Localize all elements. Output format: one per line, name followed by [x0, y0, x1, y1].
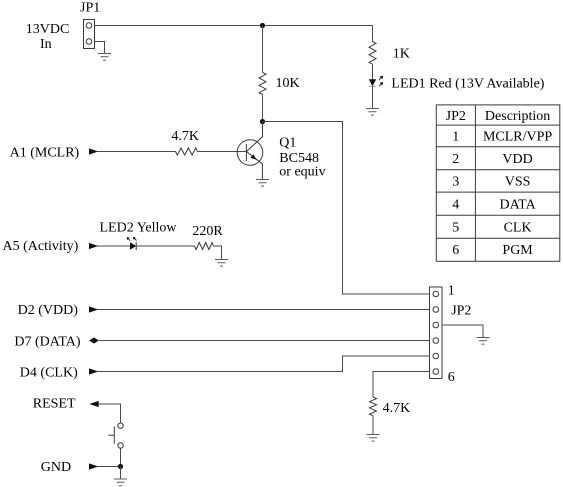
ground JP2 pin3	[477, 338, 490, 345]
ground 220R	[215, 260, 228, 267]
svg-text:JP2: JP2	[451, 304, 471, 319]
ground LED1	[366, 109, 379, 116]
svg-text:10K: 10K	[276, 76, 300, 91]
wire RESET to switch	[99, 404, 121, 423]
svg-text:4.7K: 4.7K	[383, 401, 411, 416]
wire junction down to 10K	[262, 26, 264, 73]
resistor 4.7K pulldown	[370, 397, 377, 416]
svg-text:CLK: CLK	[504, 220, 532, 235]
svg-text:1: 1	[448, 284, 455, 299]
node collector junction	[260, 119, 265, 124]
wire junction to ground	[120, 467, 122, 480]
svg-text:13VDC: 13VDC	[26, 22, 70, 37]
wire 4.7K to base	[198, 151, 247, 153]
svg-text:GND: GND	[41, 460, 71, 475]
svg-text:4: 4	[452, 197, 459, 212]
wire 10K to collector node	[262, 95, 264, 122]
svg-text:MCLR/VPP: MCLR/VPP	[483, 130, 552, 145]
wire switch to GND rail	[120, 448, 122, 466]
wire 1K to LED1	[372, 64, 374, 79]
LED LED2	[127, 237, 137, 250]
wire collector node to JP2 pin1	[263, 122, 430, 295]
ground Q1 emitter	[256, 180, 269, 187]
svg-text:LED2 Yellow: LED2 Yellow	[100, 220, 178, 235]
resistor 10K	[259, 73, 266, 95]
connector JP2	[430, 287, 443, 379]
svg-text:220R: 220R	[192, 224, 223, 239]
node GND junction	[118, 464, 123, 469]
wire top rail corner down to 1K	[372, 26, 374, 42]
svg-text:A1 (MCLR): A1 (MCLR)	[10, 145, 80, 160]
svg-text:VDD: VDD	[502, 152, 532, 167]
resistor 1K	[369, 42, 376, 65]
svg-text:In: In	[40, 37, 52, 52]
wire 4.7K to ground	[372, 416, 374, 435]
connector JP1	[84, 20, 95, 49]
svg-text:D4 (CLK): D4 (CLK)	[20, 365, 78, 380]
svg-text:Q1: Q1	[279, 135, 296, 150]
arrow GND	[89, 463, 98, 469]
wire LED2 to 220R	[136, 245, 194, 247]
wire JP2 pin6 to 4.7K	[373, 372, 430, 398]
svg-text:2: 2	[452, 152, 459, 167]
svg-text:4.7K: 4.7K	[171, 129, 199, 144]
svg-text:A5 (Activity): A5 (Activity)	[3, 239, 79, 254]
svg-text:D2 (VDD): D2 (VDD)	[18, 303, 79, 318]
wire GND to junction	[97, 466, 121, 468]
arrow A5	[89, 243, 98, 249]
arrow D4	[89, 368, 98, 374]
node junction top rail / 10K	[260, 23, 265, 28]
wire JP2 pin3 to ground	[442, 325, 483, 338]
svg-text:3: 3	[452, 175, 459, 190]
wire JP1 pin2 to ground	[95, 42, 105, 54]
arrow D2	[89, 306, 98, 312]
resistor 4.7K base	[176, 148, 198, 155]
svg-text:Description: Description	[485, 109, 550, 124]
arrow RESET	[89, 401, 98, 407]
svg-text:D7 (DATA): D7 (DATA)	[14, 334, 80, 349]
arrow D7 bidirectional	[89, 338, 99, 344]
svg-text:RESET: RESET	[33, 397, 76, 412]
wire JP1 pin1 to top rail	[95, 25, 373, 27]
svg-text:5: 5	[452, 220, 459, 235]
svg-text:6: 6	[452, 243, 459, 258]
wire A5 to LED2	[97, 245, 130, 247]
switch S1 pushbutton	[108, 423, 123, 448]
svg-text:1K: 1K	[393, 47, 410, 62]
svg-text:JP2: JP2	[446, 109, 466, 124]
resistor 220R	[195, 243, 214, 250]
arrow A1	[89, 148, 98, 154]
wire A1 to 4.7K	[97, 151, 176, 153]
wire LED1 to ground	[372, 86, 374, 108]
ground JP1	[98, 54, 111, 61]
svg-text:PGM: PGM	[502, 243, 533, 258]
wire D4 to JP2 pin5	[97, 356, 430, 372]
svg-text:VSS: VSS	[505, 175, 531, 190]
svg-text:DATA: DATA	[499, 197, 536, 212]
svg-text:LED1 Red (13V Available): LED1 Red (13V Available)	[391, 76, 544, 91]
ground 4.7K	[367, 435, 380, 442]
wire 220R to ground	[214, 246, 222, 260]
wire D2 to JP2 pin2	[97, 309, 430, 311]
wire D7 to JP2 pin4	[99, 340, 430, 342]
svg-text:6: 6	[448, 370, 455, 385]
svg-text:1: 1	[452, 130, 459, 145]
table JP2 description	[436, 105, 560, 261]
ground GND	[114, 479, 127, 486]
transistor Q1	[237, 122, 263, 180]
LED LED1	[369, 76, 383, 87]
svg-text:JP1: JP1	[80, 1, 100, 16]
svg-text:or equiv: or equiv	[279, 164, 325, 179]
